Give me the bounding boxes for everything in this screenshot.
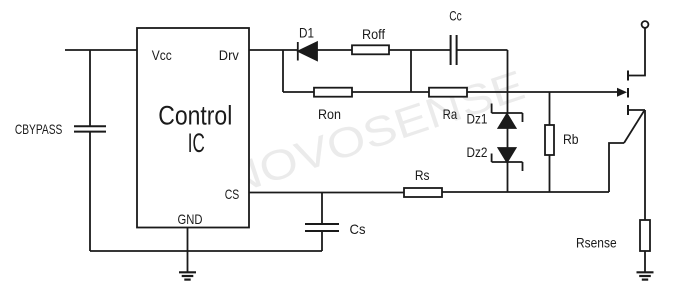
ground symbol right — [637, 272, 654, 279]
svg-text:CS: CS — [225, 186, 240, 202]
svg-text:Rsense: Rsense — [576, 235, 617, 251]
svg-text:Cc: Cc — [449, 7, 462, 23]
resistor Ra — [429, 88, 467, 97]
wire Roff junction drop — [410, 50, 412, 92]
wire Dz1 top — [507, 92, 509, 113]
zener diode Dz2 — [492, 148, 523, 171]
svg-text:CBYPASS: CBYPASS — [15, 121, 63, 137]
wire CBYPASS branch upper — [89, 50, 91, 126]
wire Dz2 bottom — [507, 162, 509, 192]
wire Ron drop — [282, 50, 284, 92]
svg-text:Vcc: Vcc — [152, 47, 172, 63]
transistor Q1 gate bar — [627, 88, 629, 98]
svg-text:Rb: Rb — [563, 131, 579, 147]
wire Ra to gate — [467, 91, 618, 93]
svg-text:Ron: Ron — [318, 106, 341, 122]
wire Rb top — [549, 92, 551, 125]
wire source to Rsense — [644, 110, 646, 220]
diode D1 — [298, 42, 317, 61]
transistor Q1 drain bar — [627, 71, 629, 81]
wire Rs to source sense — [442, 191, 609, 193]
wire source lead — [629, 109, 646, 111]
wire CS pin — [249, 192, 404, 194]
wire Drv output — [249, 49, 298, 51]
resistor Ron — [314, 88, 352, 97]
resistor Rsense — [640, 220, 650, 251]
svg-text:Control: Control — [158, 100, 232, 130]
capacitor CBYPASS — [74, 126, 106, 131]
wire Rb bottom — [549, 155, 551, 192]
wire Dz1 to Dz2 — [507, 128, 509, 148]
wire Rsense to ground — [644, 251, 646, 272]
wire GND pin — [187, 228, 189, 273]
svg-text:IC: IC — [188, 128, 205, 158]
wire Cc to gate branch — [457, 49, 508, 51]
wire bottom ground rail — [90, 250, 322, 252]
wire Cc junction drop — [507, 50, 509, 92]
wire sense elbow — [609, 143, 624, 192]
svg-text:Dz2: Dz2 — [467, 144, 488, 160]
capacitor Cc — [451, 35, 457, 65]
transistor Q1 drain terminal — [642, 21, 649, 28]
wire CBYPASS branch lower — [89, 132, 91, 251]
zener diode Dz1 — [492, 104, 523, 129]
svg-text:Dz1: Dz1 — [467, 111, 488, 127]
svg-text:D1: D1 — [299, 25, 314, 41]
capacitor Cs — [305, 224, 339, 231]
ground symbol left — [179, 272, 196, 279]
wire Roff to Cc — [389, 49, 450, 51]
resistor Roff — [352, 45, 389, 54]
svg-text:Roff: Roff — [362, 26, 385, 42]
svg-text:Ra: Ra — [443, 106, 458, 122]
svg-text:Drv: Drv — [219, 47, 239, 63]
resistor Rb — [545, 125, 554, 155]
wire Vcc input — [65, 49, 137, 51]
svg-text:GND: GND — [178, 211, 203, 227]
gate arrowhead — [617, 88, 627, 97]
wire gate net left — [283, 91, 314, 93]
control IC U1 box — [137, 28, 249, 228]
svg-text:Rs: Rs — [415, 167, 430, 183]
resistor Rs — [404, 188, 442, 197]
svg-text:Cs: Cs — [350, 221, 366, 237]
wire Ron to Ra — [352, 91, 429, 93]
wire drain lead — [629, 28, 646, 76]
wire Cs branch upper — [321, 193, 323, 225]
wire Cs branch lower — [321, 231, 323, 251]
wire D1 to Roff — [317, 49, 352, 51]
transistor Q1 source bar — [627, 105, 629, 115]
wire sense diagonal — [624, 111, 644, 143]
